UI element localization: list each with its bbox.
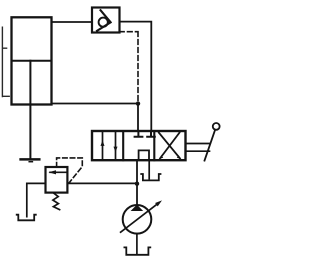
lever arm bbox=[205, 130, 215, 160]
pump P1 variable displacement arrow bbox=[121, 203, 159, 232]
relief valve RV1 internal arrowhead bbox=[48, 170, 56, 174]
DV1 left position flow line down bbox=[115, 132, 117, 159]
wire cylinder bottom port to node A bbox=[52, 103, 139, 105]
tank symbol under valve T port bbox=[141, 174, 160, 180]
cylinder C1 body bbox=[12, 17, 52, 104]
DV1 crossed arrowhead right bbox=[177, 155, 181, 159]
rod end plate bbox=[21, 158, 40, 161]
lever knob bbox=[213, 123, 220, 130]
check valve V1 box bbox=[92, 8, 120, 33]
DV1 center position P-T bypass bbox=[139, 150, 149, 159]
cylinder C1 piston bbox=[12, 60, 52, 62]
rod end tick bbox=[29, 161, 32, 163]
pump P1 circle bbox=[123, 205, 152, 234]
node P junction dot bbox=[135, 182, 139, 186]
pump P1 outlet triangle bbox=[131, 205, 144, 211]
check valve V1 ball bbox=[99, 18, 108, 27]
DV1 crossed arrowhead left bbox=[160, 155, 164, 159]
relief valve RV1 pilot line (dashed) bbox=[57, 158, 83, 183]
cylinder C1 rod bbox=[29, 61, 31, 158]
relief valve RV1 internal flow line bbox=[50, 171, 66, 173]
wire node P to relief valve inlet bbox=[67, 182, 137, 184]
tank symbol under relief valve bbox=[17, 215, 36, 221]
DV1 right position crossed flow line 2 bbox=[160, 133, 180, 159]
relief valve RV1 spring bbox=[53, 193, 60, 209]
DV1 left position down arrowhead bbox=[114, 147, 118, 153]
pilot line (dashed) from check valve bbox=[120, 32, 139, 102]
DV1 left position up arrowhead bbox=[101, 140, 105, 146]
wire cylinder top port to check valve bbox=[52, 21, 93, 23]
pump suction line bbox=[136, 234, 138, 254]
relief valve RV1 box bbox=[46, 167, 68, 193]
tank symbol under pump bbox=[124, 247, 150, 254]
check valve V1 seat bbox=[97, 10, 111, 31]
check valve V1 seat wedge bbox=[107, 20, 111, 24]
DV1 right position crossed flow line 1 bbox=[159, 133, 180, 159]
wire node A down to valve port A bbox=[137, 104, 139, 131]
wire valve port P down through node P to pump bbox=[136, 160, 138, 205]
DV1 left position flow line up bbox=[102, 132, 104, 159]
directional valve DV1 body bbox=[92, 131, 186, 160]
DV1 center position blocked port B bbox=[147, 132, 155, 137]
pump P1 arrowhead bbox=[155, 200, 162, 206]
DV1 center position blocked port A bbox=[135, 132, 143, 137]
directional valve DV1 dividers bbox=[123, 131, 154, 160]
wire relief valve outlet to tank bbox=[27, 183, 46, 216]
scan artifact bracket at left margin bbox=[2, 27, 9, 96]
wire check valve outlet to valve port B bbox=[120, 22, 152, 131]
lever stem lines bbox=[186, 144, 210, 152]
wire valve port T down to tank bbox=[148, 160, 150, 178]
node A junction dot bbox=[136, 101, 140, 105]
